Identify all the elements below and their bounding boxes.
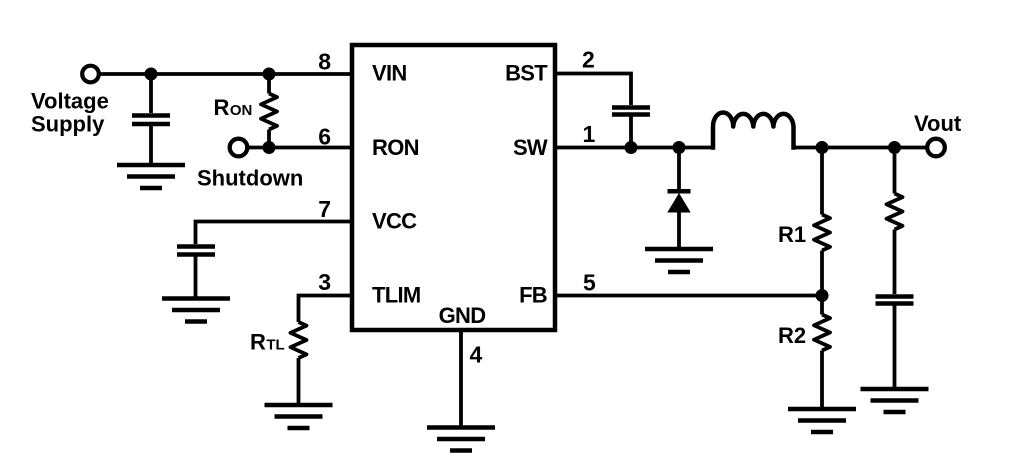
svg-text:BST: BST <box>505 61 548 86</box>
junction: input-cap node <box>145 68 158 81</box>
terminal: Shutdown <box>230 139 248 157</box>
junction: FB node <box>816 289 829 302</box>
inductor L1 <box>713 113 794 150</box>
svg-text:8: 8 <box>318 49 331 75</box>
wire: FB rail pin 5 to divider <box>555 294 822 298</box>
junction: R1 node <box>816 141 829 154</box>
svg-text:2: 2 <box>582 47 595 73</box>
svg-text:FB: FB <box>519 283 547 308</box>
diode D1 (catch diode) <box>667 148 690 248</box>
svg-text:Supply: Supply <box>31 112 105 137</box>
wire: BST pin 2 to bootstrap cap <box>555 74 631 106</box>
wire: SW rail left of inductor <box>555 146 713 150</box>
svg-text:7: 7 <box>318 196 331 222</box>
ground (VCC cap) <box>162 299 230 322</box>
svg-text:Voltage: Voltage <box>31 89 109 114</box>
wire: VCC pin 7 <box>196 222 353 245</box>
resistor R2 <box>814 296 830 408</box>
terminal: Vout <box>927 139 945 157</box>
junction: diode node <box>673 141 686 154</box>
wire: GND pin 4 drop <box>459 330 463 426</box>
svg-text:R2: R2 <box>778 323 806 348</box>
svg-text:RON: RON <box>372 135 419 160</box>
ground (RTL) <box>265 405 333 428</box>
ground (output cap) <box>861 389 929 412</box>
svg-text:TLIM: TLIM <box>372 283 421 308</box>
capacitor C-VCC <box>177 244 215 249</box>
wire: input cap to ground <box>149 126 153 164</box>
resistor R1 <box>814 148 830 296</box>
wire: TLIM pin 3 <box>299 296 353 323</box>
wire: RON rail to pin 6 <box>246 146 352 150</box>
svg-text:VCC: VCC <box>372 209 417 234</box>
ground (input) <box>117 165 185 188</box>
svg-text:Shutdown: Shutdown <box>197 166 303 191</box>
junction: shutdown node <box>263 141 276 154</box>
svg-text:5: 5 <box>583 270 596 296</box>
svg-text:4: 4 <box>470 342 483 368</box>
resistor RON <box>261 74 277 148</box>
resistor RTL <box>291 322 307 404</box>
junction: RON top node <box>263 68 276 81</box>
junction: output cap node <box>888 141 901 154</box>
capacitor CIN <box>132 113 170 118</box>
wire: VIN rail from supply terminal to pin 8 <box>99 72 352 76</box>
svg-text:VIN: VIN <box>372 61 407 86</box>
wire: down to input cap <box>149 74 153 113</box>
wire: bootstrap cap to SW <box>629 117 633 148</box>
ground (diode) <box>645 249 713 272</box>
op-amp U1 (regulator IC body) <box>352 45 555 330</box>
svg-text:1: 1 <box>583 121 596 147</box>
svg-text:6: 6 <box>318 124 331 150</box>
wire: VCC cap to ground <box>194 257 198 298</box>
ground (R2) <box>788 409 856 432</box>
svg-text:R1: R1 <box>778 222 806 247</box>
svg-text:GND: GND <box>439 303 486 328</box>
svg-text:3: 3 <box>318 269 331 295</box>
svg-text:SW: SW <box>513 135 548 160</box>
wire: output cap to ground <box>893 306 897 388</box>
svg-text:Vout: Vout <box>914 111 962 136</box>
capacitor C-BST <box>612 105 650 110</box>
ground (GND pin) <box>427 428 495 451</box>
terminal: Voltage Supply input <box>82 66 99 83</box>
resistor ESR of output cap <box>887 148 903 295</box>
junction: BST cap node <box>625 141 638 154</box>
wire: SW rail right of inductor to Vout <box>794 146 928 150</box>
capacitor COUT <box>876 294 914 299</box>
